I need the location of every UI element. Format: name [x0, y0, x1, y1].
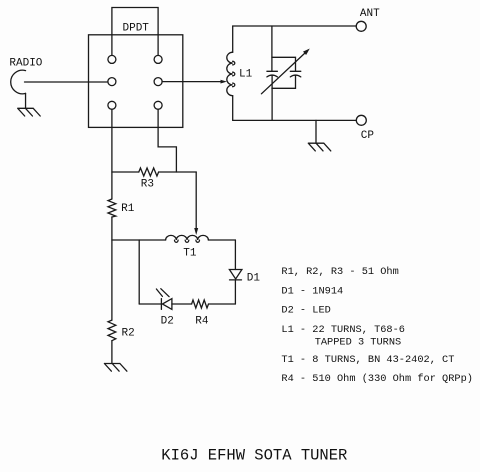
svg-text:L1: L1: [239, 69, 253, 81]
svg-text:D2 - LED: D2 - LED: [281, 305, 330, 317]
svg-text:T1: T1: [183, 247, 197, 259]
svg-text:R4 - 510 Ohm (330 Ohm for QRPp: R4 - 510 Ohm (330 Ohm for QRPp): [281, 373, 473, 385]
svg-text:R3: R3: [141, 179, 154, 191]
svg-text:R4: R4: [195, 316, 209, 328]
svg-text:ANT: ANT: [360, 8, 380, 20]
svg-text:TAPPED 3 TURNS: TAPPED 3 TURNS: [315, 337, 402, 349]
svg-text:DPDT: DPDT: [123, 23, 150, 35]
svg-text:D1: D1: [247, 272, 261, 284]
svg-text:R1, R2, R3 - 51 Ohm: R1, R2, R3 - 51 Ohm: [281, 266, 398, 278]
svg-text:R1: R1: [121, 203, 135, 215]
svg-text:R2: R2: [122, 328, 135, 340]
svg-text:D2: D2: [161, 316, 174, 328]
svg-text:RADIO: RADIO: [9, 58, 42, 70]
svg-text:L1 - 22 TURNS, T68-6: L1 - 22 TURNS, T68-6: [281, 324, 405, 336]
svg-text:T1 - 8 TURNS, BN 43-2402, CT: T1 - 8 TURNS, BN 43-2402, CT: [281, 354, 454, 366]
svg-text:CP: CP: [361, 130, 375, 142]
svg-text:D1 - 1N914: D1 - 1N914: [281, 285, 343, 297]
svg-text:KI6J EFHW SOTA TUNER: KI6J EFHW SOTA TUNER: [161, 447, 347, 465]
